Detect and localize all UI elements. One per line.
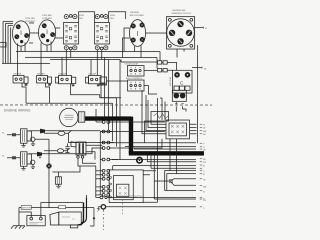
battery BT1	[19, 203, 84, 226]
wire left-edge verticals	[3, 21, 11, 63]
selector box M2	[128, 80, 145, 91]
svg-text:LOCKING: LOCKING	[25, 20, 35, 23]
circuit breaker CB2	[37, 75, 52, 103]
inline connector pair B	[158, 69, 170, 72]
svg-text:CB (DC) 8.3A: CB (DC) 8.3A	[125, 62, 139, 65]
circuit breaker CB3	[56, 75, 100, 97]
charge coil unit	[71, 142, 102, 166]
starter motor SM1	[50, 212, 81, 228]
spark plug P2	[29, 148, 100, 156]
receptacle R5 locking	[130, 20, 146, 47]
wire bus drops to breakers	[62, 51, 160, 75]
generator G1	[60, 108, 85, 126]
svg-text:125V: 125V	[79, 14, 85, 17]
circuit breaker CB4	[86, 75, 117, 97]
svg-text:BATTERY: BATTERY	[22, 206, 32, 209]
connector row J11	[96, 193, 110, 196]
svg-text:20A: 20A	[79, 17, 83, 20]
svg-text:CB 30A: CB 30A	[37, 72, 45, 75]
dashed boundary engine section	[0, 104, 212, 106]
connector row J8	[96, 177, 110, 180]
wire control unit to right labels	[143, 171, 156, 175]
wire between R1 and R2	[30, 28, 64, 38]
inline connector pair A	[158, 61, 170, 64]
receptacle R1	[12, 21, 29, 46]
svg-text:30A LOCKING: 30A LOCKING	[130, 14, 145, 17]
connector row J3	[102, 141, 114, 144]
svg-text:IDLE CONTROL: IDLE CONTROL	[126, 77, 143, 80]
svg-text:125/250V: 125/250V	[130, 11, 140, 14]
wire R6 to R5	[146, 32, 167, 34]
dashed marker line	[122, 197, 124, 216]
battery lead with label	[19, 207, 94, 209]
breaker CB5	[100, 77, 107, 85]
wire connectors to C-box	[170, 62, 177, 70]
engine stop switch	[96, 195, 206, 201]
svg-text:CB 20A: CB 20A	[89, 72, 97, 75]
svg-text:CB 20A: CB 20A	[59, 72, 67, 75]
connector row J9	[96, 185, 110, 188]
wire top feeds receptacle R1	[3, 21, 34, 43]
wire bottom bundle up	[85, 195, 87, 198]
wire right edge vertical	[196, 45, 198, 143]
ignition coil T1	[2, 129, 35, 147]
svg-text:CB 20A: CB 20A	[14, 72, 22, 75]
svg-text:GENERAL OUTLET: GENERAL OUTLET	[172, 12, 192, 15]
connector row J5	[100, 158, 110, 161]
svg-text:ENGINE WIRING: ENGINE WIRING	[4, 108, 31, 112]
ignition coil T2	[2, 152, 35, 170]
wire M1 M2 to C-box	[107, 60, 158, 86]
svg-text:20A: 20A	[110, 17, 114, 20]
connector row J10	[96, 189, 110, 192]
wire R6 right stub	[195, 27, 204, 29]
wire R5 left stub	[123, 28, 130, 58]
circuit breaker C (DC)	[173, 70, 193, 93]
pickup connector	[44, 130, 102, 142]
svg-text:ENGINE STOP SWITCH: ENGINE STOP SWITCH	[117, 195, 143, 198]
duplex receptacle R3	[64, 14, 79, 49]
harness right horizontals above cable	[110, 143, 196, 149]
condenser C2	[65, 143, 69, 152]
wire coil junction	[35, 139, 49, 163]
starter cable curves	[78, 197, 100, 226]
grommet	[137, 158, 142, 163]
spark unit F1	[39, 156, 80, 188]
main cable thick	[85, 116, 131, 120]
pickup connector 2	[44, 148, 70, 153]
svg-text:LOCKING: LOCKING	[42, 17, 52, 20]
svg-text:125V 20A: 125V 20A	[25, 17, 35, 20]
circuit breaker CB1	[13, 75, 28, 103]
wire duplex top links	[79, 12, 126, 23]
svg-text:12V 8.3A: 12V 8.3A	[169, 76, 172, 86]
DC output terminals	[172, 90, 186, 104]
rectifier box	[151, 112, 169, 122]
svg-text:BR: BR	[203, 130, 206, 133]
svg-text:125V: 125V	[110, 14, 116, 17]
connector row J1	[96, 109, 165, 123]
harness right horizontals below cable	[110, 160, 196, 170]
selector box M1	[128, 66, 145, 77]
connector row J6	[96, 169, 110, 172]
svg-text:G: G	[205, 27, 207, 30]
svg-text:125/250V 50A: 125/250V 50A	[172, 9, 186, 12]
wire breaker outputs	[26, 98, 121, 104]
connector row J7	[96, 173, 110, 176]
spark plug P1	[29, 129, 100, 134]
control unit box	[109, 170, 143, 203]
svg-text:125V 30A: 125V 30A	[42, 14, 52, 17]
wires CN to labels	[189, 124, 196, 134]
svg-text:BR: BR	[203, 185, 206, 188]
starter dynamo D1	[46, 163, 51, 207]
connector block CN	[166, 120, 190, 139]
wire CN block down feeds	[170, 139, 177, 174]
Y junction connector	[154, 179, 206, 189]
connector row J4	[100, 147, 140, 150]
lower right wires	[143, 98, 196, 202]
duplex receptacle R4	[95, 14, 110, 49]
engine harness verticals	[96, 131, 101, 197]
battery ground	[11, 208, 25, 229]
frame terminal left	[0, 42, 6, 47]
svg-text:G: G	[203, 190, 205, 193]
main receptacle R6	[167, 17, 195, 50]
receptacle R2	[38, 20, 55, 45]
connector row J2	[100, 130, 165, 133]
wire C-box terminals down	[176, 106, 186, 111]
wire top buses	[2, 51, 160, 63]
svg-text:LG: LG	[203, 161, 206, 164]
wires into engine section	[100, 131, 118, 159]
oil pressure switch	[98, 205, 205, 230]
